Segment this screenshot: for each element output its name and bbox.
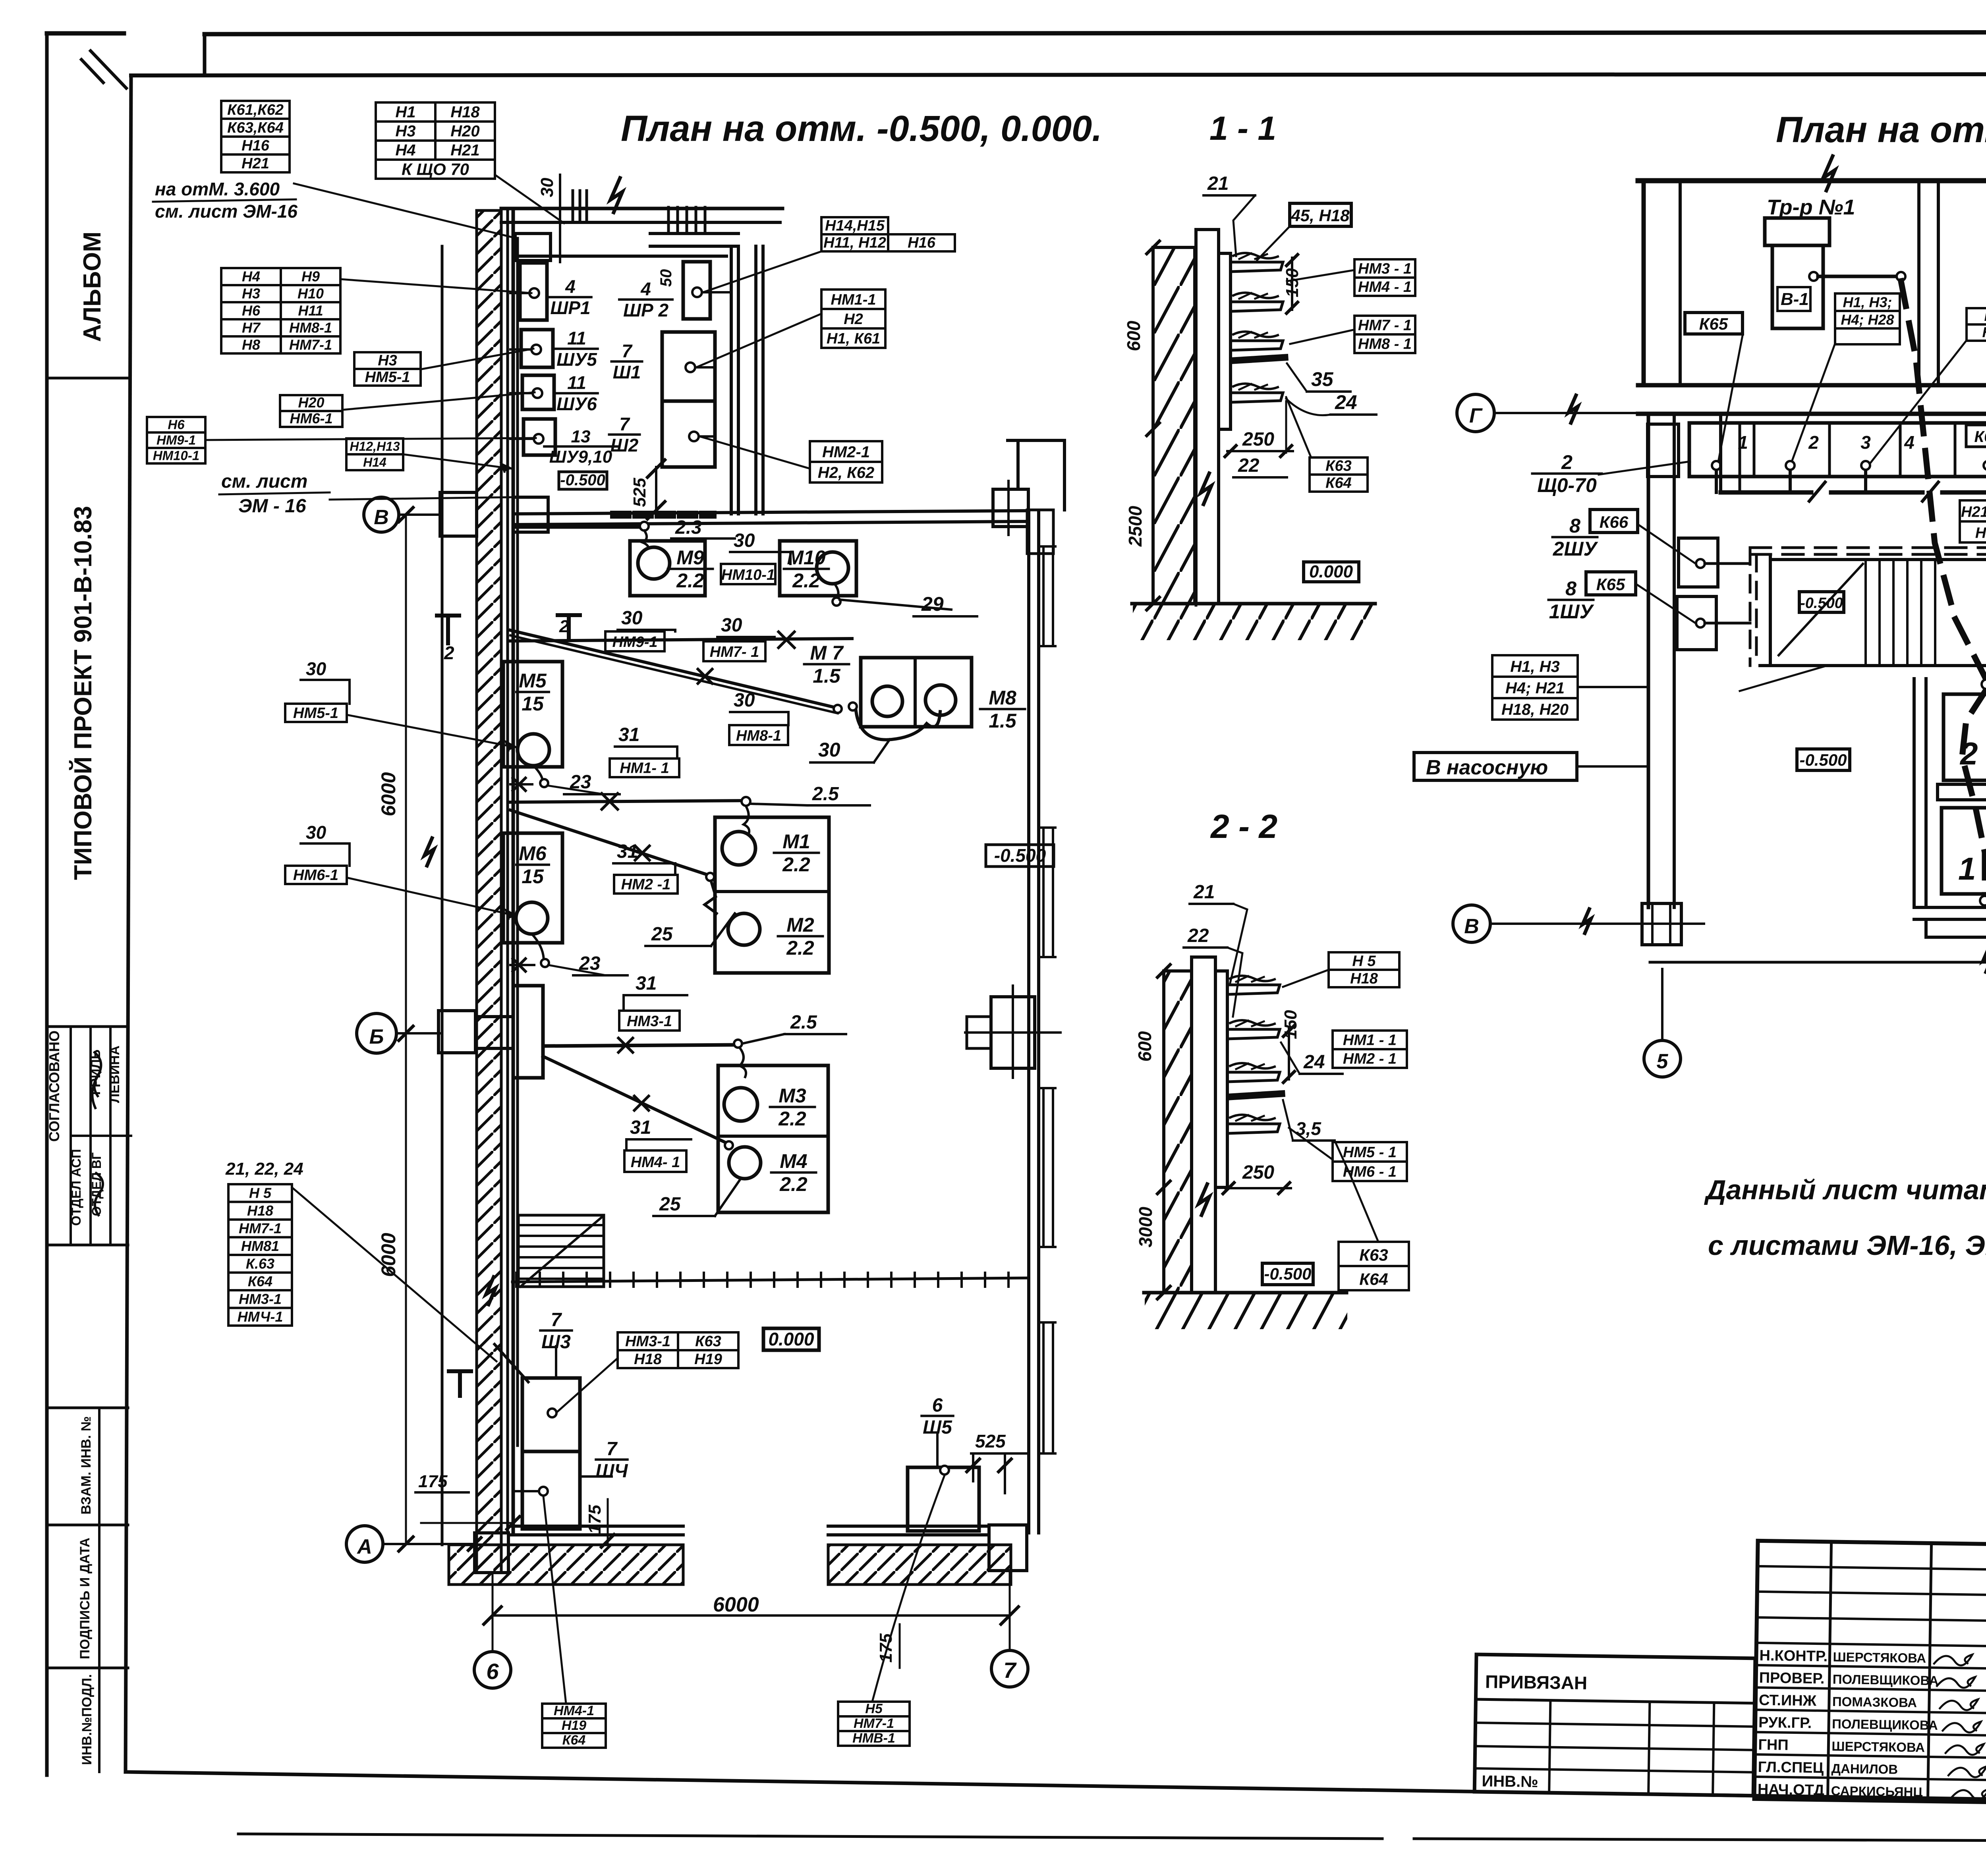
label stack Н4..НМ7-1 (221, 268, 340, 353)
dashed boundary inner room (1750, 546, 1986, 549)
svg-text:ПОДПИСЬ И ДАТА: ПОДПИСЬ И ДАТА (77, 1538, 93, 1659)
label 13/ШУ9,10 (544, 427, 617, 467)
cable tray third 2-2 (1227, 1072, 1280, 1082)
svg-text:ИНВ.№ПОДЛ.: ИНВ.№ПОДЛ. (79, 1674, 95, 1765)
svg-text:21: 21 (1207, 173, 1229, 194)
svg-text:2.2: 2.2 (792, 569, 820, 592)
svg-text:Н14: Н14 (363, 455, 386, 469)
axis circle 6 (474, 1652, 511, 1688)
svg-text:2: 2 (1808, 432, 1819, 453)
svg-text:К63: К63 (1359, 1246, 1388, 1264)
svg-text:ГНП: ГНП (1758, 1737, 1789, 1754)
svg-text:АЛЬБОМ: АЛЬБОМ (79, 232, 106, 342)
label НМ4-1 cable (624, 1150, 686, 1172)
svg-text:К61,К62: К61,К62 (227, 102, 284, 118)
svg-text:30: 30 (721, 615, 742, 636)
label Н20 НМ6-1 (280, 394, 342, 427)
svg-text:Н 5: Н 5 (249, 1185, 272, 1201)
svg-text:ШУ9,10: ШУ9,10 (549, 447, 612, 467)
stair treads right plan (1864, 560, 1867, 666)
transformer 1 wire (1809, 272, 1818, 281)
title block row НАЧ.ОТД (1754, 1777, 1986, 1781)
bottom boundary line right plan (1650, 961, 1986, 964)
main title block frame (1754, 1541, 1986, 1810)
КСО room walls (1913, 679, 1916, 907)
right wall window segment 2 (1043, 828, 1053, 957)
svg-text:11: 11 (567, 328, 586, 349)
svg-text:-0.500: -0.500 (994, 845, 1046, 866)
axis В niche (513, 497, 548, 532)
svg-text:НМ10-1: НМ10-1 (153, 448, 199, 463)
svg-text:ШР1: ШР1 (550, 297, 590, 318)
svg-text:Н3: Н3 (242, 286, 260, 302)
svg-text:23: 23 (570, 772, 591, 793)
foundation hatch band right (828, 1545, 1011, 1585)
corridor walls (1638, 383, 1986, 388)
dim line 6000 bottom (493, 1614, 1010, 1617)
labels НМ7-1 НМ8-1 (1354, 316, 1415, 353)
label 8/2ШУ (1553, 515, 1599, 560)
svg-text:Н9: Н9 (301, 268, 320, 285)
inner frame bottom line (skewed scan) (126, 1772, 1986, 1808)
svg-text:1 - 1: 1 - 1 (1209, 110, 1276, 147)
perforated tray strip 2-2 (1230, 1094, 1282, 1097)
leader НМ2-1 box to Ш2 (700, 436, 810, 469)
svg-text:К64: К64 (248, 1273, 272, 1289)
svg-text:22: 22 (1238, 455, 1260, 476)
svg-text:НМ2 - 1: НМ2 - 1 (1343, 1051, 1397, 1067)
svg-text:ШУ6: ШУ6 (556, 394, 597, 414)
svg-text:К63: К63 (695, 1333, 721, 1350)
svg-text:2.5: 2.5 (790, 1012, 817, 1033)
top-right ledge wall (650, 232, 738, 235)
svg-text:САРКИСЬЯНЦ: САРКИСЬЯНЦ (1831, 1783, 1923, 1799)
label М1/2.2 (774, 830, 819, 876)
ground hatch 1-1 (1133, 605, 1375, 640)
svg-text:Н2: Н2 (844, 311, 863, 328)
svg-text:Н1: Н1 (395, 103, 415, 121)
leader stack to Ш4 (543, 1496, 566, 1704)
svg-text:30: 30 (537, 178, 557, 197)
svg-text:15: 15 (522, 865, 544, 888)
svg-text:НМ2 -1: НМ2 -1 (621, 876, 671, 893)
section 1-1 lower wall continues (1195, 604, 1198, 605)
svg-text:Н18: Н18 (450, 103, 480, 121)
svg-text:6000: 6000 (377, 1233, 400, 1277)
label stack Н1..К ЩО 70 (376, 102, 495, 179)
svg-text:22: 22 (1187, 925, 1209, 946)
svg-text:см. лист: см. лист (221, 471, 307, 492)
svg-text:29: 29 (921, 593, 944, 615)
svg-text:2.2: 2.2 (779, 1173, 808, 1195)
labels Н5 Н18 sec2 (1329, 952, 1399, 987)
svg-text:НМ3-1: НМ3-1 (627, 1013, 672, 1030)
label НМ10-1 (721, 564, 775, 584)
svg-text:с листами ЭМ-16, ЭМ-17: с листами ЭМ-16, ЭМ-17 (1708, 1230, 1986, 1261)
cable tray 21 top (1231, 262, 1283, 272)
axis В circle (364, 497, 399, 532)
labels Н17 Н43 (1967, 308, 1986, 341)
section mark 1Т bottom (449, 1371, 471, 1396)
svg-text:6: 6 (932, 1395, 943, 1416)
label НМ7-1 (703, 641, 765, 661)
corridor right door block (993, 489, 1028, 527)
cable bus under cells (1721, 490, 1811, 495)
svg-text:Н7: Н7 (242, 320, 261, 336)
section 1-1 dim line left (1152, 247, 1154, 604)
axis В exterior block (440, 492, 477, 536)
label М10/2.2 (784, 546, 829, 592)
leader H14 box to ШР2 (703, 251, 821, 292)
svg-text:Н11: Н11 (298, 303, 323, 319)
svg-text:Н19: Н19 (562, 1718, 586, 1733)
leader from tray4 to К63 box (1286, 397, 1311, 457)
svg-text:НМ7-1: НМ7-1 (854, 1716, 894, 1731)
label В насосную (1414, 753, 1577, 780)
svg-text:600: 600 (1123, 320, 1144, 351)
label Н6 НМ9-1 НМ10-1 (147, 417, 205, 463)
svg-text:175: 175 (585, 1505, 605, 1534)
pump unit M1 M2 (715, 817, 829, 973)
section cut strip through room (614, 511, 713, 519)
pump unit M9 (630, 541, 705, 596)
svg-text:2: 2 (559, 617, 569, 636)
pump unit M10 (780, 541, 856, 596)
cabinet ШР1 (520, 263, 547, 320)
svg-text:ШЕРСТЯКОВА: ШЕРСТЯКОВА (1833, 1650, 1926, 1666)
label 7/ШЧ (596, 1438, 628, 1482)
svg-text:1.5: 1.5 (813, 665, 841, 687)
svg-text:7: 7 (619, 414, 630, 434)
svg-text:7: 7 (1003, 1658, 1017, 1683)
B2 circle (1982, 679, 1986, 689)
svg-text:30: 30 (621, 608, 643, 629)
title block upper empty rows (1758, 1566, 1986, 1570)
label К65 box lower (1586, 572, 1636, 595)
svg-text:-0.500: -0.500 (1799, 751, 1847, 769)
svg-text:К63,К64: К63,К64 (227, 120, 284, 136)
svg-text:0.000: 0.000 (1309, 562, 1353, 581)
leader НМ1-1 box to Ш1 (696, 314, 821, 367)
pump unit M7 M8 double block (861, 658, 972, 727)
dim 150 (1291, 258, 1293, 310)
cable tray fourth (1231, 393, 1283, 402)
section mark flag (second) (558, 615, 580, 637)
shaft wall left pair (730, 246, 733, 514)
svg-text:НМ3-1: НМ3-1 (239, 1291, 282, 1307)
svg-text:Н2, К62: Н2, К62 (818, 464, 874, 482)
svg-text:НМ7 - 1: НМ7 - 1 (1358, 317, 1412, 334)
svg-text:30: 30 (306, 658, 326, 679)
svg-text:150: 150 (1281, 1010, 1300, 1039)
label М3/2.2 (770, 1085, 815, 1130)
svg-text:НМ2-1: НМ2-1 (822, 444, 870, 461)
left plan wall inner face double (506, 210, 509, 1533)
leader stack to Ш5 (872, 1475, 945, 1702)
svg-text:2.2: 2.2 (786, 937, 814, 959)
label stack К61..Н21 (221, 101, 290, 172)
ground line 1-1 (1132, 602, 1375, 606)
svg-text:НМ9-1: НМ9-1 (612, 634, 657, 650)
svg-text:525: 525 (975, 1431, 1006, 1451)
svg-text:8: 8 (1569, 515, 1580, 537)
svg-text:Н16: Н16 (241, 137, 270, 154)
bottom exterior wall right part (828, 1525, 989, 1528)
svg-text:175: 175 (876, 1633, 896, 1663)
sheet outer border left line (45, 33, 49, 1775)
svg-text:35: 35 (1311, 368, 1334, 390)
diagonal cable to M4 (543, 1056, 727, 1143)
svg-text:НМ5 - 1: НМ5 - 1 (1343, 1144, 1397, 1161)
inner frame left line (126, 75, 131, 1772)
left plan hatched wall strip (477, 210, 501, 1573)
right wall window segment 1 (1043, 546, 1053, 646)
axis Б circle (357, 1013, 396, 1053)
label М6/15 (516, 842, 549, 888)
svg-text:РУК.ГР.: РУК.ГР. (1758, 1714, 1812, 1732)
cable tray third (1231, 341, 1283, 350)
B1 circle (1980, 896, 1986, 905)
privyazan table (1474, 1654, 1755, 1796)
cabinet Ш4 (522, 1451, 580, 1529)
label НМ1-1 Н2 Н1,К61 (821, 290, 885, 348)
section 2-2 wall hatch (1164, 971, 1192, 1293)
box 1ШУ (1677, 596, 1716, 650)
labels НМ1-2 НМ2-2 (1333, 1031, 1407, 1068)
svg-text:Н18: Н18 (634, 1351, 662, 1368)
cable run at corridor to 2.3 tap (513, 525, 644, 529)
hall partition below M9/M10 room (510, 639, 852, 641)
title block row СТ.ИНЖ (1756, 1687, 1986, 1691)
axis В circle right plan (1453, 905, 1490, 942)
svg-text:24: 24 (1303, 1052, 1325, 1073)
label М9/2.2 (668, 546, 713, 592)
room inner top wall (515, 255, 726, 258)
shaft wall right pair (754, 246, 757, 514)
label НМ9-1 (605, 631, 665, 651)
svg-text:К66: К66 (1974, 428, 1986, 446)
svg-text:2ШУ: 2ШУ (1553, 538, 1599, 560)
riser pair corridor to cells (1719, 414, 1722, 492)
sidebar cells lower (47, 1407, 128, 1409)
КСО-366 upper box (1943, 694, 1986, 780)
diagonal cable to M2 (510, 810, 708, 875)
label 2/Щ0-70 (1532, 451, 1602, 496)
svg-text:250: 250 (1242, 1162, 1274, 1183)
labels Н21;Н42 Н44 (1960, 500, 1986, 542)
label Н14,Н15 row (821, 217, 888, 234)
partition junction circle 2.5 (742, 797, 750, 806)
svg-text:4: 4 (1904, 432, 1915, 453)
svg-text:Н20: Н20 (450, 122, 479, 140)
svg-text:21: 21 (1193, 882, 1215, 903)
svg-text:2.2: 2.2 (676, 569, 704, 592)
label М7/1.5 (804, 642, 849, 687)
label К66 in row (1966, 425, 1986, 447)
svg-text:2: 2 (444, 643, 454, 663)
svg-text:НМ4- 1: НМ4- 1 (631, 1154, 680, 1171)
svg-text:НМ6-1: НМ6-1 (293, 867, 338, 884)
top exterior wall (501, 207, 782, 210)
svg-text:-0.500: -0.500 (560, 471, 605, 489)
svg-text:1ШУ: 1ШУ (1549, 600, 1595, 623)
bottom right wall column (989, 1525, 1027, 1571)
small rect below door block (1027, 510, 1053, 554)
label К65 upper (1685, 313, 1743, 334)
axis Б niche structure (513, 986, 543, 1078)
svg-text:ПРОВЕР.: ПРОВЕР. (1759, 1669, 1824, 1687)
label 6/Ш5 (922, 1395, 953, 1438)
bottom exterior wall left part (508, 1525, 683, 1528)
section mark 2 with flag (left) (437, 616, 459, 643)
svg-text:НМ1-1: НМ1-1 (831, 291, 876, 308)
stack Н1,Н3 Н4;Н21 Н18,Н20 (1492, 655, 1578, 720)
svg-text:Н1, Н3;: Н1, Н3; (1843, 294, 1892, 310)
svg-text:ШЧ: ШЧ (596, 1461, 628, 1482)
svg-text:СТ.ИНЖ: СТ.ИНЖ (1759, 1692, 1817, 1709)
svg-text:К63: К63 (1325, 458, 1352, 475)
label НМ2-1 Н2,К62 (810, 441, 882, 483)
svg-text:45, Н18: 45, Н18 (1291, 206, 1350, 225)
title block row ГНП (1755, 1732, 1986, 1736)
svg-text:Н4: Н4 (242, 268, 260, 285)
svg-text:Н21: Н21 (241, 155, 269, 172)
svg-text:НМ3 - 1: НМ3 - 1 (1358, 261, 1412, 277)
wall break marks 2-2 (1199, 1184, 1209, 1215)
leader to Ш3 circle (557, 1358, 618, 1412)
labels К63 К64 sec1 (1310, 457, 1368, 492)
foundation hatch band left (449, 1545, 683, 1585)
cable tray second (1231, 302, 1283, 311)
bottom left wall column (475, 1533, 508, 1573)
svg-text:М10: М10 (787, 546, 825, 569)
svg-text:31: 31 (636, 973, 657, 994)
labels НМ3-1 НМ4-1 (1354, 259, 1415, 296)
КСО-366 lower box (1942, 808, 1986, 894)
svg-text:ЭМ - 16: ЭМ - 16 (238, 496, 306, 517)
cable tray fourth 2-2 (1227, 1124, 1280, 1133)
level -0.500 box a (1799, 592, 1844, 612)
svg-text:ПРИВЯЗАН: ПРИВЯЗАН (1485, 1671, 1588, 1693)
svg-text:Н18: Н18 (247, 1202, 273, 1219)
svg-text:НМ8 - 1: НМ8 - 1 (1358, 336, 1412, 353)
svg-text:СОГЛАСОВАНО: СОГЛАСОВАНО (46, 1031, 62, 1142)
svg-text:ИНВ.№: ИНВ.№ (1482, 1772, 1538, 1791)
stairs (518, 1215, 604, 1287)
svg-text:Ш1: Ш1 (613, 362, 641, 382)
dim 525 vertical (655, 467, 657, 511)
svg-text:ВЗАМ. ИНВ. №: ВЗАМ. ИНВ. № (79, 1416, 94, 1515)
label НМ1-1 cable (610, 759, 679, 777)
svg-text:Б: Б (369, 1025, 384, 1048)
svg-text:М6: М6 (519, 842, 547, 865)
label 7/Ш3 (540, 1309, 572, 1353)
level mark 0.000 bottom room (763, 1328, 819, 1350)
cabinet Ш3 (522, 1378, 580, 1451)
svg-text:НМ6-1: НМ6-1 (290, 410, 332, 427)
svg-text:175: 175 (418, 1472, 448, 1491)
title block row ПРОВЕР. (1756, 1665, 1986, 1669)
svg-text:В-1: В-1 (1781, 290, 1809, 309)
level -0.500 box b (1797, 749, 1850, 770)
cabinet Ш2 (662, 401, 715, 467)
svg-text:План на отм. -0.500, 0.000.: План на отм. -0.500, 0.000. (621, 108, 1102, 149)
labels К63 К64 sec2 (1339, 1242, 1409, 1290)
svg-text:2: 2 (1561, 451, 1573, 473)
sidebar signatures (92, 1052, 101, 1108)
svg-text:Н4: Н4 (395, 141, 415, 159)
section 2-2 wall column (1192, 957, 1215, 1293)
cabinet Ш5 (908, 1467, 979, 1531)
label М8/1.5 (980, 687, 1025, 732)
svg-text:50: 50 (657, 269, 675, 287)
section 2-2 dim line (1163, 971, 1165, 1293)
svg-text:2500: 2500 (1125, 506, 1146, 547)
svg-text:Щ0-70: Щ0-70 (1537, 474, 1597, 496)
svg-text:Н6: Н6 (168, 417, 185, 432)
hall partition below M5 room (510, 801, 745, 802)
svg-text:А: А (356, 1535, 372, 1558)
svg-text:НАЧ.ОТД: НАЧ.ОТД (1758, 1781, 1825, 1799)
label 11/ШУ6 (556, 372, 598, 414)
svg-text:6: 6 (486, 1659, 499, 1684)
label Н11,Н12 Н16 (821, 234, 955, 251)
label 4/ШР2 (619, 279, 672, 320)
30 dim vertical at top left (559, 175, 561, 262)
svg-text:30: 30 (734, 690, 755, 711)
door swing bottom room (495, 1344, 528, 1382)
svg-text:М4: М4 (780, 1150, 807, 1172)
svg-text:НМ5-1: НМ5-1 (365, 369, 410, 386)
svg-text:-0.500: -0.500 (1800, 595, 1843, 612)
svg-text:НМ7-1: НМ7-1 (239, 1220, 282, 1237)
leader tall stack to stairs (292, 1187, 496, 1361)
svg-text:ПОЛЕВЩИКОВА: ПОЛЕВЩИКОВА (1832, 1672, 1938, 1688)
svg-text:24: 24 (1335, 391, 1357, 413)
svg-text:Н19: Н19 (694, 1351, 722, 1368)
svg-text:30: 30 (306, 822, 326, 843)
svg-text:2 - 2: 2 - 2 (1210, 808, 1277, 845)
svg-text:ДАНИЛОВ: ДАНИЛОВ (1831, 1761, 1898, 1777)
diagonal cable to М7/М8 (510, 630, 838, 708)
right plan left wall upper (1642, 181, 1646, 385)
sheet outer border top line (47, 31, 124, 36)
svg-text:2.2: 2.2 (778, 1108, 806, 1130)
svg-text:Г: Г (1469, 404, 1483, 427)
svg-text:4: 4 (640, 279, 651, 299)
svg-text:см. лист ЭМ-16: см. лист ЭМ-16 (155, 201, 298, 222)
svg-text:525: 525 (630, 478, 649, 507)
svg-text:Н 44: Н 44 (1975, 525, 1986, 541)
svg-text:600: 600 (1134, 1031, 1155, 1062)
title block left columns (1828, 1542, 1831, 1800)
svg-text:Ш2: Ш2 (610, 435, 639, 455)
svg-text:К64: К64 (1359, 1270, 1388, 1289)
svg-text:25: 25 (659, 1194, 681, 1215)
svg-text:11: 11 (567, 372, 586, 393)
cabinet ШУ5 (521, 330, 553, 367)
svg-text:М1: М1 (782, 830, 810, 853)
svg-text:-0.500: -0.500 (1264, 1264, 1311, 1283)
svg-text:К66: К66 (1600, 513, 1629, 531)
svg-text:1: 1 (1958, 851, 1976, 886)
axis circle 7 (991, 1650, 1028, 1687)
svg-text:23: 23 (579, 953, 601, 974)
section 1-1 pilaster (1219, 253, 1231, 429)
level mark -0.500 top room (559, 472, 607, 489)
svg-text:НМ7-1: НМ7-1 (289, 337, 332, 353)
svg-text:250: 250 (1242, 429, 1274, 450)
